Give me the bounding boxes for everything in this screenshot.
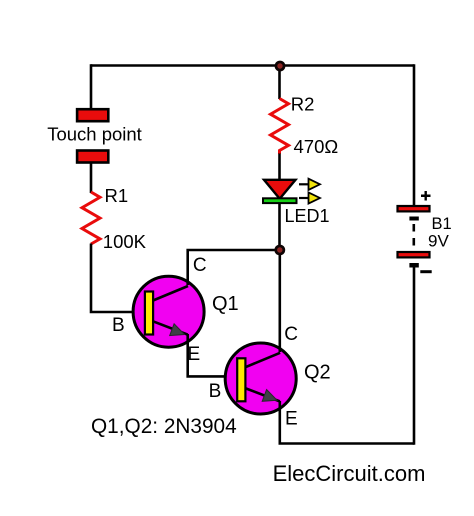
wire right rail top <box>413 64 416 205</box>
svg-text:ElecCircuit.com: ElecCircuit.com <box>273 461 426 486</box>
svg-text:R2: R2 <box>291 94 315 115</box>
svg-text:Touch point: Touch point <box>47 124 142 145</box>
touch pad lower plate <box>77 151 108 163</box>
wire R1 to Q1 base <box>91 244 145 313</box>
wire Q2 emitter to bottom rail <box>280 401 414 444</box>
plus sign <box>421 191 431 201</box>
wire Q1 emitter to Q2 base <box>188 334 237 376</box>
resistor R2 zigzag <box>271 99 289 155</box>
battery long plate 2 <box>398 252 430 257</box>
svg-text:C: C <box>284 324 298 345</box>
svg-text:B: B <box>112 315 125 336</box>
battery short plate 1 <box>409 217 418 221</box>
transistor Q1 <box>133 276 204 347</box>
wire Q1 collector to node <box>188 250 280 285</box>
battery short plate 2 <box>409 263 418 268</box>
node junction top <box>275 61 286 72</box>
LED1 cathode bar <box>263 198 297 203</box>
LED1 anode triangle <box>264 180 296 199</box>
svg-text:B1: B1 <box>432 215 452 233</box>
LED light arrow 2 <box>299 192 320 203</box>
touch pad upper plate <box>77 109 108 121</box>
svg-text:470Ω: 470Ω <box>294 136 339 157</box>
svg-text:9V: 9V <box>428 232 449 251</box>
svg-text:B: B <box>209 381 222 402</box>
wire node to R2 <box>278 65 281 99</box>
svg-text:Q1,Q2: 2N3904: Q1,Q2: 2N3904 <box>91 415 237 438</box>
svg-text:LED1: LED1 <box>285 206 330 226</box>
node junction middle <box>274 245 285 256</box>
wire Q2 collector to node <box>278 250 281 352</box>
wire pad to R1 <box>90 163 93 194</box>
LED light arrow 1 <box>299 179 320 190</box>
wire top rail <box>91 64 414 67</box>
resistor R1 zigzag <box>82 192 100 244</box>
transistor Q2 <box>225 343 296 414</box>
wire R2 to LED <box>278 154 281 182</box>
svg-text:E: E <box>285 409 298 430</box>
wire LED to node <box>278 204 281 252</box>
battery B1 <box>398 191 432 272</box>
minus sign <box>420 270 431 273</box>
svg-text:100K: 100K <box>103 231 147 252</box>
svg-text:E: E <box>188 344 201 365</box>
battery dashed link <box>412 224 415 248</box>
wire right rail bottom <box>413 266 416 444</box>
svg-text:R1: R1 <box>105 185 129 206</box>
wire left vertical to touch pad <box>90 64 93 109</box>
battery long plate 1 <box>398 206 430 211</box>
svg-text:Q1: Q1 <box>212 293 239 315</box>
svg-text:Q2: Q2 <box>304 362 331 384</box>
svg-text:C: C <box>193 255 207 276</box>
